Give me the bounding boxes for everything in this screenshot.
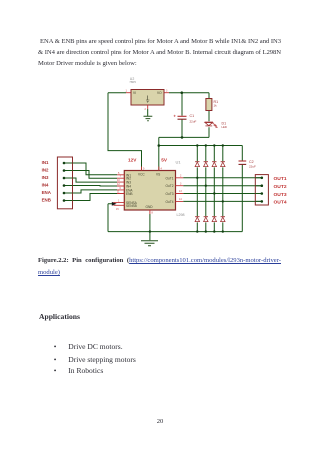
node OUT4 label	[274, 200, 287, 206]
svg-text:L298: L298	[177, 213, 185, 217]
wire OUT3	[183, 193, 262, 195]
svg-text:1: 1	[126, 90, 128, 93]
capacitor C2	[239, 160, 257, 169]
paragraph line 3	[38, 60, 281, 67]
connector J2 outputs	[255, 175, 268, 205]
svg-text:14: 14	[179, 198, 182, 201]
paragraph line 2	[38, 49, 281, 56]
wire IN4	[64, 185, 117, 188]
node OUT1 label	[274, 176, 287, 182]
svg-text:8: 8	[152, 212, 154, 215]
svg-text:IN3: IN3	[42, 175, 49, 180]
svg-text:12V: 12V	[128, 158, 137, 163]
svg-text:LED: LED	[222, 125, 227, 129]
ground symbol main	[141, 241, 158, 246]
svg-text:7805: 7805	[129, 80, 136, 84]
wire IN1	[64, 163, 117, 175]
svg-text:IN1: IN1	[42, 160, 49, 165]
wire regulator ground	[147, 105, 149, 116]
wire IN3	[64, 178, 117, 182]
wire diode column 1	[196, 146, 198, 232]
ground symbol regulator	[144, 116, 153, 120]
svg-text:VO: VO	[157, 91, 162, 95]
svg-text:22uF: 22uF	[190, 120, 197, 124]
svg-text:1k: 1k	[214, 104, 218, 108]
svg-text:C2: C2	[249, 160, 254, 164]
svg-text:OUT3: OUT3	[274, 192, 287, 198]
svg-text:15: 15	[116, 208, 119, 211]
wire sense ground left	[108, 202, 117, 232]
wire diode column 4	[222, 146, 224, 232]
svg-text:OUT2: OUT2	[274, 184, 287, 190]
wire GND pin drop	[149, 214, 151, 240]
wire ground rail	[108, 231, 242, 233]
svg-text:3: 3	[180, 182, 182, 185]
svg-text:IN2: IN2	[42, 167, 49, 172]
diode D6 bottom row col1	[195, 217, 199, 222]
wire IN2	[64, 171, 117, 179]
wire diode column 2	[205, 146, 207, 232]
svg-text:13: 13	[179, 190, 182, 193]
diode D3 top row col2	[204, 162, 208, 167]
node 5V label	[161, 158, 168, 163]
diode D7 bottom row col2	[204, 217, 208, 222]
resistor R1	[206, 99, 218, 111]
svg-text:OUT1: OUT1	[274, 176, 287, 182]
junction dots	[63, 91, 263, 232]
wire OUT4	[183, 200, 262, 202]
diode D8 bottom row col3	[212, 217, 216, 222]
svg-text:ENB: ENB	[126, 192, 133, 196]
node IN3 label	[42, 175, 49, 180]
svg-text:ENB: ENB	[42, 197, 51, 202]
svg-text:2: 2	[145, 108, 147, 111]
svg-text:VCC: VCC	[138, 172, 145, 176]
capacitor C1	[174, 114, 197, 123]
connector J1 inputs	[57, 157, 72, 209]
svg-text:OuT2: OuT2	[166, 184, 174, 188]
svg-text:SENSB: SENSB	[126, 204, 137, 208]
node IN4 label	[42, 182, 49, 187]
svg-text:IN4: IN4	[42, 182, 49, 187]
svg-text:OuT3: OuT3	[166, 192, 174, 196]
svg-text:VI: VI	[133, 91, 136, 95]
node ENA label	[42, 190, 52, 195]
svg-text:ENA: ENA	[42, 190, 52, 195]
page number	[157, 418, 164, 425]
svg-text:22uF: 22uF	[249, 165, 256, 169]
op-amp U1 L298 IC	[114, 160, 185, 218]
wire 12V vertical left	[108, 93, 142, 171]
node ENB label	[42, 197, 51, 202]
bullet 2	[54, 355, 57, 364]
svg-text:5V: 5V	[161, 158, 168, 163]
svg-text:3: 3	[166, 90, 168, 93]
voltage regulator U2	[126, 77, 169, 111]
diode D9 bottom row col4	[221, 217, 225, 222]
LED D1	[205, 122, 227, 129]
Applications heading	[39, 312, 80, 321]
node OUT3 label	[274, 192, 287, 198]
wire 7805 input top	[108, 92, 131, 94]
svg-text:2: 2	[180, 175, 182, 178]
wire R1/D1 column	[208, 93, 210, 138]
svg-text:OuT4: OuT4	[166, 200, 174, 204]
svg-text:OUT4: OUT4	[274, 200, 287, 206]
diode D2 top row col1	[195, 162, 199, 167]
wire OUT1	[183, 177, 262, 179]
wire diode column 3	[213, 146, 215, 232]
wire C2 leads	[241, 146, 243, 232]
svg-text:VS: VS	[156, 172, 160, 176]
wire ENB	[64, 194, 117, 201]
figure caption line 1	[38, 257, 281, 264]
paragraph line 1	[38, 38, 281, 45]
figure caption line 2	[38, 269, 281, 276]
svg-text:C1: C1	[190, 114, 195, 118]
diode D5 top row col4	[221, 162, 225, 167]
node IN2 label	[42, 167, 49, 172]
wire C1 leads	[181, 93, 183, 138]
svg-text:U1: U1	[176, 160, 182, 165]
svg-text:OuT1: OuT1	[166, 176, 174, 180]
node OUT2 label	[274, 184, 287, 190]
wire ENA	[64, 190, 117, 193]
wire 7805 output	[164, 92, 209, 94]
svg-text:GND: GND	[146, 205, 154, 209]
bullet 1	[54, 342, 57, 351]
wire VS drop	[158, 137, 160, 170]
diode D4 top row col3	[212, 162, 216, 167]
bullet 3	[54, 366, 57, 375]
wire rail B (diode top rail)	[159, 145, 243, 147]
wire rail A (5V)	[159, 136, 209, 138]
node IN1 label	[42, 160, 49, 165]
wire OUT2	[183, 185, 262, 187]
node 12V label	[128, 158, 137, 163]
